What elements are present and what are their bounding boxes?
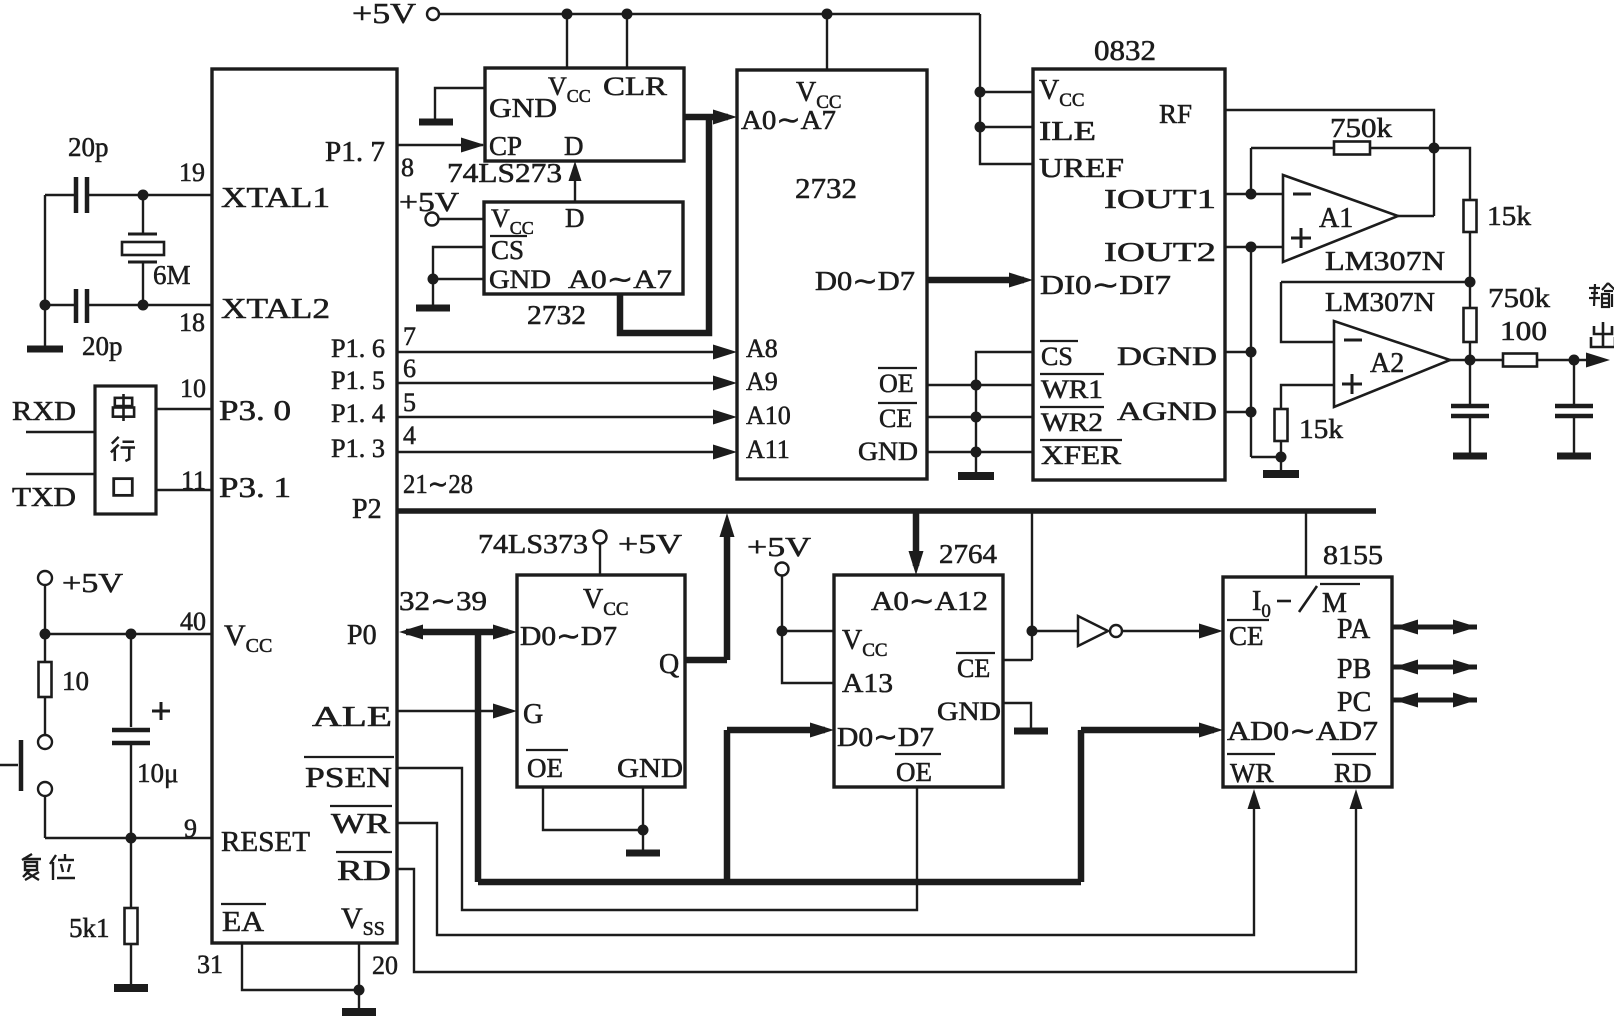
node xtal1-crystal junction (138, 190, 149, 201)
label fuwei (reset) (22, 854, 41, 880)
svg-text:+5V: +5V (62, 568, 124, 598)
node 15k ground junction (1276, 452, 1287, 463)
node ground net GND (971, 447, 982, 458)
svg-text:6: 6 (403, 354, 416, 383)
node DGND junction (1246, 347, 1257, 358)
svg-text:GND: GND (617, 753, 683, 783)
capacitor C4 plates (1451, 404, 1489, 409)
svg-text:31: 31 (197, 950, 223, 979)
op-amp A2 plus (1342, 383, 1362, 386)
svg-text:PSEN: PSEN (305, 763, 392, 794)
svg-text:GND: GND (858, 437, 918, 466)
wire U3 CS to ground (433, 247, 484, 279)
eprom U7 2764 body (834, 575, 1003, 787)
capacitor C5 plates (1555, 404, 1593, 409)
wire feedback left leg (1250, 148, 1252, 194)
node U3 ground junction (428, 274, 439, 285)
svg-text:+5V: +5V (352, 0, 416, 30)
svg-text:CE: CE (957, 654, 990, 683)
wire WR to 8155 WR (397, 796, 1254, 935)
ground 5k1 (130, 982, 132, 988)
svg-text:IOUT2: IOUT2 (1104, 237, 1216, 267)
svg-text:P3. 0: P3. 0 (219, 396, 291, 427)
wire switch to reset node (44, 796, 46, 838)
svg-text:EA: EA (222, 907, 265, 938)
op-amp A2 minus (1344, 339, 1362, 342)
eprom U3 2732 body (484, 202, 683, 294)
svg-text:10: 10 (62, 666, 89, 696)
svg-text:18: 18 (179, 308, 205, 337)
svg-text:19: 19 (179, 158, 205, 187)
wire RF to feedback node (1225, 110, 1434, 216)
svg-text:32∼39: 32∼39 (399, 586, 487, 616)
wire 0832 CS to ground net (976, 352, 1033, 472)
wire +5V to U7 VCC (781, 576, 783, 631)
wire U3 D to U2 D (arrow up) (574, 166, 576, 202)
svg-text:750k: 750k (1330, 113, 1393, 143)
svg-text:A0∼A7: A0∼A7 (741, 105, 836, 135)
wire IOUT2 to A1 noninverting (1225, 246, 1283, 248)
bus P0 riser (475, 632, 482, 882)
ground VSS (358, 990, 360, 1012)
latch U6 74LS373 body (517, 575, 685, 787)
port PB bidirectional arrow (1392, 665, 1477, 670)
svg-text:G: G (523, 699, 543, 730)
svg-text:A1: A1 (1319, 203, 1353, 234)
eprom U4 2732 body (737, 70, 927, 479)
svg-text:CS: CS (1041, 342, 1073, 371)
svg-text:A13: A13 (842, 668, 893, 698)
wire P1.6 to A8 (397, 351, 728, 353)
svg-text:D0∼D7: D0∼D7 (520, 621, 617, 651)
svg-text:AD0∼AD7: AD0∼AD7 (1227, 716, 1378, 746)
svg-text:20p: 20p (82, 331, 123, 361)
svg-text:OE: OE (879, 369, 914, 398)
svg-text:2732: 2732 (527, 300, 586, 330)
capacitor C2 20p plates (74, 289, 79, 323)
wire +5V to U7 A13 (782, 631, 834, 683)
node reset junction (126, 833, 137, 844)
svg-text:2764: 2764 (939, 539, 998, 569)
crystal Y1 plates (128, 233, 157, 236)
svg-text:WR: WR (1230, 758, 1274, 788)
io U9 8155 body (1223, 577, 1392, 787)
bus U3 A0-A7 to address bus (620, 117, 709, 333)
svg-text:4: 4 (403, 421, 416, 450)
node rail-74LS273 CLR (622, 9, 633, 20)
bus Q to P2 riser (724, 524, 731, 660)
svg-text:CE: CE (879, 404, 912, 433)
svg-text:D0∼D7: D0∼D7 (837, 722, 934, 752)
wire P2 to 8155 top (1305, 511, 1307, 577)
wire P3.1 to serial port (156, 489, 212, 491)
capacitor C3 10u wire top (130, 634, 132, 727)
svg-text:15k: 15k (1299, 414, 1344, 444)
wire P1.5 to A9 (397, 382, 728, 384)
svg-text:XTAL1: XTAL1 (221, 183, 330, 214)
svg-text:TXD: TXD (12, 482, 76, 512)
svg-text:RF: RF (1159, 99, 1192, 129)
wire 15k to A2 feedback node (1469, 232, 1471, 282)
wire 15k to ground (1280, 441, 1282, 457)
svg-text:P3. 1: P3. 1 (219, 473, 291, 504)
node rail-2732 VCC (822, 9, 833, 20)
svg-text:CP: CP (489, 131, 522, 161)
svg-text:5: 5 (403, 388, 416, 417)
node U7 VCC junction (777, 626, 788, 637)
wire A2 feedback top (1281, 281, 1470, 283)
wire 750k to node (1370, 147, 1434, 149)
capacitor C3 polarity + (152, 710, 170, 713)
svg-text:74LS273: 74LS273 (447, 158, 562, 188)
wire rail to 0832 (980, 14, 1033, 164)
capacitor C5 wire (1573, 360, 1575, 404)
wire EA to VSS (242, 943, 359, 990)
serial-port char xing (111, 437, 135, 461)
wire xtal1 right (89, 194, 212, 196)
svg-text:RESET: RESET (221, 827, 310, 858)
svg-text:PB: PB (1337, 654, 1371, 685)
switch S1 terminal top (38, 735, 52, 749)
node U6 ground junction (638, 825, 649, 836)
wire xtal caps common (44, 195, 46, 305)
bus U2 output to 2732 A0~A7 (684, 114, 728, 121)
svg-text:8: 8 (401, 153, 414, 182)
resistor R7 100 body (1503, 354, 1537, 367)
resistor R5 750k body (1469, 282, 1471, 308)
inverter U8 bubble (1110, 625, 1122, 637)
op-amp A1 plus (1291, 237, 1311, 240)
node VSS junction (354, 985, 365, 996)
svg-text:P1. 4: P1. 4 (331, 399, 385, 428)
svg-text:7: 7 (403, 322, 416, 351)
wire +5V to U3 VCC (438, 218, 484, 220)
wire PSEN to 2764 OE (397, 768, 917, 910)
label shuchu (output) (1589, 283, 1614, 307)
wire xtal2 left (45, 304, 74, 306)
svg-text:15k: 15k (1487, 201, 1532, 231)
svg-text:OE: OE (527, 753, 563, 783)
wire TXD (26, 473, 95, 475)
MCU U1 8051 body (212, 69, 397, 943)
wire AGND stub (1225, 411, 1251, 413)
resistor R4 15k body (1464, 200, 1477, 232)
op-amp A1 triangle (1283, 175, 1398, 262)
ground C5 (1573, 416, 1575, 456)
wire IOUT2 net vertical (1250, 247, 1252, 457)
svg-text:100: 100 (1500, 316, 1547, 346)
svg-text:Q: Q (659, 649, 679, 680)
svg-text:A2: A2 (1370, 348, 1404, 379)
wire tap to inverter (1032, 630, 1078, 632)
wire A1 output (1398, 215, 1434, 217)
svg-text:PC: PC (1337, 687, 1371, 718)
wire U7 CE to P2 line (1003, 659, 1032, 661)
node +5V VCC stub (975, 87, 986, 98)
resistor R2 5k1 body (130, 838, 132, 908)
ground 74LS273 GND (435, 88, 485, 119)
node ground net CE (971, 412, 982, 423)
svg-text:P2: P2 (352, 494, 382, 525)
svg-text:WR2: WR2 (1041, 408, 1103, 437)
resistor R1 10 body (44, 634, 46, 662)
svg-text:DI0∼DI7: DI0∼DI7 (1040, 270, 1171, 300)
svg-text:D: D (564, 131, 584, 161)
svg-text:74LS373: 74LS373 (478, 529, 588, 559)
node IOUT2 junction (1246, 242, 1257, 253)
capacitor C1 20p plates (74, 177, 79, 213)
svg-text:LM307N: LM307N (1325, 287, 1435, 317)
node rail-74LS273 VCC (562, 9, 573, 20)
node AGND junction (1246, 407, 1257, 418)
bus P0 to U6 D0~D7 (406, 629, 508, 636)
svg-text:D0∼D7: D0∼D7 (815, 266, 915, 296)
svg-text:CE: CE (1229, 621, 1264, 651)
svg-text:LM307N: LM307N (1325, 246, 1445, 276)
svg-text:P1. 6: P1. 6 (331, 334, 385, 363)
wire P1.4 to A10 (397, 416, 728, 418)
switch S1 actuator (19, 740, 24, 791)
svg-text:8155: 8155 (1323, 540, 1383, 570)
wire inverter to 8155 CE (1123, 630, 1214, 632)
wire P2 to 2764 CE (1031, 511, 1033, 660)
ground U3 (432, 279, 434, 308)
wire P3.0 to serial port (156, 408, 212, 410)
svg-text:OE: OE (896, 757, 932, 787)
svg-text:P1. 5: P1. 5 (331, 366, 385, 395)
resistor R3 750k body (1334, 142, 1370, 155)
node +5V ILE stub (975, 122, 986, 133)
svg-text:P0: P0 (347, 620, 377, 651)
wire rail to 2732 VCC (826, 14, 828, 70)
bus P2 to 2764 A0~A12 (913, 511, 920, 566)
bus data bottom (478, 879, 1081, 886)
node IOUT1 junction (1246, 189, 1257, 200)
svg-text:CS: CS (491, 235, 524, 265)
svg-text:A0∼A7: A0∼A7 (568, 265, 672, 294)
node output (1569, 355, 1580, 366)
bus U6 Q out (685, 657, 727, 664)
wire U6 OE to ground (543, 787, 643, 830)
svg-text:6M: 6M (153, 260, 191, 290)
switch S1 terminal bottom (38, 782, 52, 796)
inverter U8 triangle (1078, 616, 1108, 646)
wire P1.3 to A11 (397, 451, 728, 453)
ground xtal (44, 305, 46, 349)
bus riser to 2764 D0~D7 (724, 730, 731, 882)
svg-text:IOUT1: IOUT1 (1104, 184, 1216, 214)
svg-text:750k: 750k (1488, 283, 1551, 313)
node xtal2-crystal junction (138, 300, 149, 311)
svg-text:P1. 7: P1. 7 (325, 137, 385, 168)
wire VSS pin (358, 943, 360, 990)
svg-text:10: 10 (180, 374, 206, 403)
op-amp A1 minus (1293, 193, 1311, 196)
svg-text:RXD: RXD (12, 396, 76, 426)
svg-text:P1. 3: P1. 3 (331, 434, 385, 463)
svg-text:40: 40 (180, 607, 206, 636)
wire xtal2 right (89, 304, 212, 306)
wire IOUT1 to A1 inverting (1225, 193, 1283, 195)
svg-text:UREF: UREF (1039, 153, 1124, 183)
bus P2 (397, 508, 1376, 514)
svg-text:2732: 2732 (795, 174, 857, 205)
wire 2732 GND to 0832 XFER (927, 451, 1033, 453)
svg-text:CLR: CLR (603, 72, 668, 101)
wire crystal top stub (142, 195, 144, 234)
svg-text:5k1: 5k1 (69, 913, 110, 943)
svg-text:ALE: ALE (312, 702, 392, 733)
wire RXD (26, 431, 95, 433)
wire RD to 8155 RD (397, 796, 1356, 972)
wire xtal1 left (45, 194, 74, 196)
svg-text:ILE: ILE (1039, 116, 1096, 146)
ground U6 (642, 830, 644, 853)
svg-text:GND: GND (937, 697, 1001, 726)
capacitor C4 wire (1469, 360, 1471, 404)
wire +5V to VCC node (44, 585, 46, 634)
ground U7 (1030, 727, 1032, 731)
svg-text:D: D (565, 203, 585, 233)
wire +5V to U6 VCC (599, 543, 601, 575)
svg-text:WR1: WR1 (1041, 375, 1103, 404)
node RF feedback (1429, 143, 1440, 154)
wire node to 15k (1434, 148, 1470, 200)
svg-text:PA: PA (1337, 614, 1371, 645)
wire rail to 74LS273 VCC (566, 14, 568, 68)
wire 100 to output node (1537, 359, 1574, 361)
node A2 feedback (1465, 277, 1476, 288)
node VCC rail junction (40, 629, 51, 640)
port PA bidirectional arrow (1392, 625, 1477, 630)
svg-text:A0∼A12: A0∼A12 (871, 586, 988, 616)
svg-text:XTAL2: XTAL2 (221, 294, 330, 325)
wire A2 noninverting to 15k (1281, 385, 1334, 409)
svg-text:GND: GND (489, 265, 551, 294)
svg-text:GND: GND (489, 93, 557, 123)
svg-text:A10: A10 (746, 401, 791, 430)
wire U3 GND to ground (433, 278, 484, 280)
svg-text:XFER: XFER (1041, 441, 1122, 470)
node inverter tap (1027, 626, 1038, 637)
svg-text:A9: A9 (746, 367, 778, 396)
wire A2 inverting (1281, 282, 1334, 342)
port PC bidirectional arrow (1392, 698, 1477, 703)
node capacitor 10u top junction (126, 629, 137, 640)
bus 2732 D0~D7 to DI0~DI7 (927, 277, 1024, 284)
wire output arrow (1574, 359, 1600, 361)
serial-port box (95, 386, 156, 514)
svg-text:+5V: +5V (618, 529, 683, 559)
bus riser to 8155 AD0~AD7 (1078, 730, 1085, 882)
svg-text:20p: 20p (68, 132, 109, 162)
wire +5V stub to VCC (980, 91, 1033, 93)
crystal Y1 6M body (122, 242, 164, 255)
capacitor C3 10u plates (112, 728, 150, 733)
node ground net OE (971, 380, 982, 391)
svg-text:0832: 0832 (1094, 36, 1156, 67)
svg-text:A8: A8 (746, 334, 778, 363)
svg-text:21∼28: 21∼28 (403, 469, 473, 499)
resistor R6 15k body (1275, 409, 1288, 441)
node A2 output (1465, 355, 1476, 366)
svg-text:10μ: 10μ (137, 758, 178, 788)
serial-port char kou (114, 479, 133, 496)
ground A2 input (1280, 457, 1282, 474)
wire ALE to U6 G (397, 710, 508, 712)
register U2 74LS273 body (485, 68, 684, 161)
power +5V terminal (reset) (38, 571, 52, 585)
ground C4 (1469, 416, 1471, 456)
wire P1.7 to CP (397, 144, 483, 146)
capacitor C3 wire bottom (130, 743, 132, 838)
power +5V terminal (U6) (594, 531, 607, 544)
wire VCC rail to MCU (45, 633, 212, 635)
dac U5 0832 body (1033, 69, 1225, 480)
svg-text:DGND: DGND (1117, 342, 1217, 371)
op-amp A2 triangle (1334, 321, 1450, 407)
serial-port char chuan (113, 394, 134, 421)
wire +5V stub to ILE (980, 126, 1033, 128)
wire U6 GND pin (642, 787, 644, 830)
wire feedback to 750k (1251, 147, 1334, 149)
wire 2732 CE to 0832 WR2 (927, 416, 1033, 418)
wire 2732 OE to 0832 WR1 (927, 384, 1033, 386)
wire rail to 74LS273 CLR (626, 14, 628, 68)
ground 2732/0832 control (975, 472, 977, 476)
svg-text:+5V: +5V (747, 532, 812, 562)
wire reset node to MCU RESET (131, 837, 212, 839)
wire A2 output to 100 (1450, 359, 1503, 361)
svg-text:RD: RD (1334, 758, 1372, 788)
svg-text:A11: A11 (746, 435, 790, 464)
svg-text:WR: WR (331, 809, 390, 840)
wire U7 GND to ground (1003, 703, 1031, 727)
svg-text:RD: RD (337, 856, 391, 887)
wire +5V top rail (440, 13, 980, 16)
svg-text:20: 20 (372, 951, 398, 980)
wire crystal bottom stub (142, 262, 144, 305)
wire DGND stub (1225, 351, 1251, 353)
svg-text:AGND: AGND (1117, 397, 1217, 426)
